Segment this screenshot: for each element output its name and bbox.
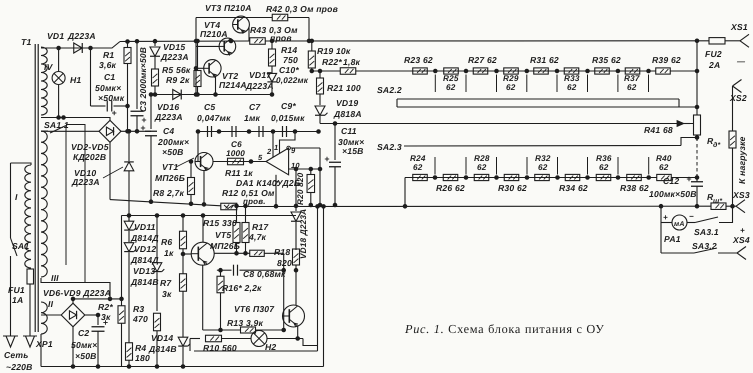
svg-text:R29: R29 bbox=[503, 74, 519, 83]
resistor R11 bbox=[228, 158, 244, 165]
resistor Rsh shunt bbox=[711, 203, 726, 210]
svg-text:0,022мк: 0,022мк bbox=[276, 76, 309, 85]
resistor R43 in rail bbox=[250, 38, 266, 45]
svg-text:R35 62: R35 62 bbox=[592, 55, 621, 65]
resistor R29 bbox=[504, 68, 519, 74]
resistor R38 bbox=[627, 174, 642, 180]
transistor VT3 bbox=[233, 16, 250, 33]
op-amp DA1 К140УД2Б bbox=[266, 148, 289, 175]
svg-text:VD19: VD19 bbox=[336, 98, 358, 108]
lamp H1 bbox=[57, 46, 61, 50]
wire bridge negative bbox=[109, 142, 111, 199]
wire R41 wiper line bbox=[320, 123, 684, 125]
resistor R30 bbox=[504, 174, 519, 180]
svg-text:R27 62: R27 62 bbox=[468, 55, 497, 65]
svg-text:0,015мк: 0,015мк bbox=[271, 113, 305, 123]
resistor R13 bbox=[241, 327, 256, 333]
svg-text:R37: R37 bbox=[624, 74, 640, 83]
wire VT5 collector bbox=[202, 216, 204, 243]
svg-text:II: II bbox=[48, 299, 54, 309]
wire lower return A bbox=[303, 339, 318, 346]
svg-text:VT1: VT1 bbox=[162, 162, 178, 172]
svg-text:62: 62 bbox=[506, 83, 516, 92]
capacitor C5 bbox=[207, 126, 209, 137]
resistor R24 bbox=[413, 174, 428, 180]
diode VD1 bbox=[74, 43, 83, 53]
svg-text:×50мк: ×50мк bbox=[98, 93, 125, 103]
fuse FU1 bbox=[29, 268, 31, 269]
svg-text:SA2.3: SA2.3 bbox=[377, 142, 402, 152]
resistor R40 bbox=[657, 174, 672, 180]
svg-text:R11 1к: R11 1к bbox=[225, 168, 253, 178]
svg-text:R24: R24 bbox=[410, 154, 426, 163]
transistor VT4 bbox=[219, 38, 236, 55]
svg-text:R39 62: R39 62 bbox=[652, 55, 681, 65]
svg-text:VD2-VD5: VD2-VD5 bbox=[71, 142, 109, 152]
resistor R18 bbox=[293, 249, 300, 265]
svg-text:д*: д* bbox=[713, 141, 721, 149]
svg-text:С4: С4 bbox=[163, 126, 174, 136]
wire ladder row2 bbox=[405, 177, 657, 179]
svg-text:FU1: FU1 bbox=[8, 285, 25, 295]
wire SA1.1 tap lines bbox=[65, 126, 67, 266]
svg-text:R5 56к: R5 56к bbox=[162, 65, 191, 75]
svg-text:XS2: XS2 bbox=[729, 93, 747, 103]
svg-text:R14: R14 bbox=[281, 45, 297, 55]
svg-text:1к: 1к bbox=[164, 248, 174, 258]
svg-text:R15 330: R15 330 bbox=[203, 218, 237, 228]
transformer winding IV bbox=[41, 47, 47, 115]
svg-text:R20 820: R20 820 bbox=[296, 172, 305, 205]
resistor R6 bbox=[182, 216, 184, 232]
svg-text:Т1: Т1 bbox=[21, 37, 31, 47]
wire emitter bus bbox=[152, 94, 273, 96]
svg-text:VD15: VD15 bbox=[163, 42, 185, 52]
svg-text:R2*: R2* bbox=[98, 302, 113, 312]
capacitor C3 electrolytic bbox=[135, 40, 139, 44]
svg-text:Д223А: Д223А bbox=[154, 112, 183, 122]
svg-text:R8 2,7к: R8 2,7к bbox=[153, 188, 185, 198]
wire VT1 base bbox=[197, 132, 199, 162]
svg-text:XS1: XS1 bbox=[730, 22, 748, 32]
svg-text:Н1: Н1 bbox=[70, 75, 81, 85]
svg-text:IV: IV bbox=[44, 62, 54, 72]
wire VT5 emitter bbox=[202, 265, 204, 330]
capacitor C4 electrolytic bbox=[149, 93, 153, 97]
svg-text:9: 9 bbox=[291, 146, 296, 155]
wire SA1.1 to bridge bbox=[41, 118, 110, 121]
bottom return rail bbox=[41, 366, 324, 368]
svg-text:×15В: ×15В bbox=[342, 146, 364, 156]
fuse FU2 bbox=[709, 38, 725, 44]
svg-text:Д223А: Д223А bbox=[245, 81, 274, 91]
svg-text:DA1 К140УД2Б: DA1 К140УД2Б bbox=[236, 178, 300, 188]
svg-text:62: 62 bbox=[477, 163, 487, 172]
zener VD11 bbox=[128, 216, 130, 222]
wire bridge2 bottom bbox=[40, 334, 42, 367]
resistor R16 bbox=[220, 270, 222, 276]
wire lower return B bbox=[194, 350, 318, 352]
wire winding II to bridge bbox=[41, 314, 61, 316]
svg-text:R25: R25 bbox=[443, 74, 459, 83]
resistor R25 bbox=[444, 68, 459, 74]
svg-text:I: I bbox=[15, 192, 18, 202]
svg-text:R36: R36 bbox=[596, 154, 612, 163]
svg-text:SA3.1: SA3.1 bbox=[694, 227, 719, 237]
svg-text:С3 2000мк×50В: С3 2000мк×50В bbox=[138, 47, 148, 112]
lamp H2 bbox=[251, 331, 267, 347]
svg-text:П214А: П214А bbox=[219, 80, 247, 90]
svg-text:~220В: ~220В bbox=[6, 362, 33, 372]
wire output column bbox=[696, 41, 698, 115]
svg-text:VD11: VD11 bbox=[134, 222, 156, 232]
svg-text:R16* 2,2к: R16* 2,2к bbox=[222, 283, 262, 293]
capacitor C7b bbox=[258, 126, 260, 137]
svg-text:Д223А: Д223А bbox=[71, 177, 100, 187]
resistor R22 bbox=[340, 68, 356, 75]
zener VD13 bbox=[156, 216, 158, 263]
wire R42 top bbox=[196, 17, 273, 19]
resistor R39 bbox=[656, 68, 671, 74]
svg-text:2: 2 bbox=[266, 147, 272, 156]
zener VD18 bbox=[295, 169, 297, 211]
resistor R1 bbox=[126, 40, 130, 44]
svg-text:VD6-VD9 Д223А: VD6-VD9 Д223А bbox=[43, 288, 111, 298]
switch SA3.2 bbox=[660, 223, 662, 254]
svg-text:R33: R33 bbox=[564, 74, 580, 83]
svg-text:ш*: ш* bbox=[713, 198, 722, 205]
transistor VT6 bbox=[283, 305, 305, 327]
svg-text:62: 62 bbox=[627, 83, 637, 92]
svg-text:VT5: VT5 bbox=[215, 230, 231, 240]
svg-text:VD18 Д223А: VD18 Д223А bbox=[299, 209, 308, 259]
svg-text:С9*: С9* bbox=[281, 101, 296, 111]
svg-text:820: 820 bbox=[277, 258, 292, 268]
connector XS3 bbox=[726, 205, 736, 207]
wire winding III to bridge bbox=[41, 130, 99, 132]
svg-text:1000: 1000 bbox=[226, 149, 245, 158]
resistor R34 bbox=[565, 174, 580, 180]
resistor R17b bbox=[214, 252, 249, 254]
resistor R42 bbox=[272, 14, 288, 21]
wire top secondary bbox=[41, 42, 120, 49]
svg-text:750: 750 bbox=[283, 55, 298, 65]
capacitor C12 electrolytic bbox=[691, 181, 703, 183]
svg-text:R34 62: R34 62 bbox=[559, 183, 588, 193]
resistor R20 bbox=[310, 169, 312, 175]
capacitor C7a bbox=[231, 126, 233, 137]
svg-text:+: + bbox=[663, 213, 668, 222]
svg-text:Д814В: Д814В bbox=[130, 277, 159, 287]
svg-text:−: − bbox=[689, 212, 694, 221]
svg-text:VT6 П307: VT6 П307 bbox=[234, 304, 275, 314]
svg-text:С7: С7 bbox=[249, 102, 261, 112]
resistor R27 bbox=[473, 68, 488, 74]
svg-text:XP1: XP1 bbox=[35, 339, 53, 349]
svg-text:R1: R1 bbox=[103, 50, 114, 60]
wire ladder row1 bbox=[413, 70, 656, 72]
resistor R21 bbox=[319, 71, 321, 78]
svg-text:R21 100: R21 100 bbox=[327, 83, 361, 93]
wire op-amp pin10 bbox=[289, 168, 320, 170]
svg-text:Д223А: Д223А bbox=[160, 52, 189, 62]
diode VD15 bbox=[153, 39, 157, 43]
resistor R31 bbox=[534, 68, 549, 74]
svg-text:0,047мк: 0,047мк bbox=[197, 113, 231, 123]
svg-text:62: 62 bbox=[659, 163, 669, 172]
wire VT6 emitter bbox=[297, 326, 299, 339]
row2 tap contacts bbox=[434, 157, 436, 175]
zener VD14 bbox=[178, 337, 188, 346]
svg-text:VD12: VD12 bbox=[134, 244, 156, 254]
diode VD16 bbox=[173, 90, 182, 100]
resistor R5 bbox=[152, 69, 159, 86]
svg-text:Д223А: Д223А bbox=[67, 31, 96, 41]
transformer T1 core bbox=[34, 44, 36, 332]
wire op-amp pin2 bbox=[272, 132, 274, 158]
svg-text:R32: R32 bbox=[535, 154, 551, 163]
svg-text:R38 62: R38 62 bbox=[620, 183, 649, 193]
svg-text:VD16: VD16 bbox=[157, 102, 179, 112]
wire row1 to output bbox=[671, 70, 698, 72]
svg-text:R43: R43 bbox=[250, 25, 266, 35]
transformer winding II bbox=[41, 302, 47, 334]
svg-text:С5: С5 bbox=[204, 102, 215, 112]
svg-text:R40: R40 bbox=[656, 154, 672, 163]
svg-text:VD1: VD1 bbox=[47, 31, 64, 41]
svg-text:Д814В: Д814В bbox=[148, 344, 177, 354]
svg-text:3к: 3к bbox=[101, 312, 111, 322]
svg-text:VD14: VD14 bbox=[151, 333, 173, 343]
svg-text:R41 68: R41 68 bbox=[644, 125, 673, 135]
connector XS4 bbox=[737, 247, 746, 254]
svg-text:С12: С12 bbox=[663, 176, 679, 186]
svg-text:R28: R28 bbox=[474, 154, 490, 163]
svg-text:МП26Б: МП26Б bbox=[155, 173, 185, 183]
svg-text:200мк×: 200мк× bbox=[157, 137, 189, 147]
svg-text:FU2: FU2 bbox=[705, 49, 722, 59]
svg-text:КД202В: КД202В bbox=[73, 152, 106, 162]
zener VD12 bbox=[128, 231, 130, 242]
svg-text:R9 2к: R9 2к bbox=[166, 75, 190, 85]
svg-text:К нагрузке: К нагрузке bbox=[737, 136, 747, 184]
connector XS1 bbox=[740, 34, 749, 41]
wire row1 feed bbox=[312, 70, 340, 72]
wire bridge positive bbox=[121, 130, 151, 132]
wire negative bus R12 bbox=[110, 200, 221, 206]
row1 tap contacts bbox=[434, 75, 436, 93]
wire winding III bottom bbox=[41, 278, 110, 299]
svg-text:Д818А: Д818А bbox=[333, 109, 362, 119]
svg-text:SA1.1: SA1.1 bbox=[44, 120, 69, 130]
svg-text:50мк×: 50мк× bbox=[95, 83, 121, 93]
svg-text:С2: С2 bbox=[78, 328, 89, 338]
capacitor C11 electrolytic bbox=[334, 124, 336, 161]
wire op-amp pin1 bbox=[280, 132, 296, 154]
resistor R28 bbox=[474, 174, 489, 180]
svg-text:R18: R18 bbox=[274, 247, 290, 257]
svg-text:100мк×50В: 100мк×50В bbox=[649, 189, 697, 199]
svg-text:62: 62 bbox=[538, 163, 548, 172]
wire op-amp pin9 bbox=[287, 146, 291, 150]
svg-text:1А: 1А bbox=[12, 295, 23, 305]
resistor R14 bbox=[270, 39, 274, 43]
transistor VT5 bbox=[191, 242, 214, 265]
svg-text:R42 0,3 Ом пров: R42 0,3 Ом пров bbox=[266, 4, 338, 14]
svg-text:С8 0,68мк: С8 0,68мк bbox=[243, 269, 286, 279]
svg-text:С6: С6 bbox=[231, 140, 242, 149]
svg-text:R3: R3 bbox=[133, 304, 144, 314]
wire VT1 emitter bbox=[203, 171, 205, 205]
svg-text:мА: мА bbox=[674, 221, 685, 228]
wire VT1 collector to op-amp bbox=[213, 161, 266, 163]
resistor R32 bbox=[535, 174, 550, 180]
resistor R7 bbox=[180, 274, 187, 292]
svg-text:С11: С11 bbox=[341, 126, 357, 136]
svg-text:470: 470 bbox=[132, 314, 148, 324]
resistor R36 bbox=[596, 174, 611, 180]
svg-text:П210А: П210А bbox=[200, 29, 228, 39]
svg-text:+: + bbox=[740, 226, 745, 235]
wire bridge2 plus bbox=[85, 314, 98, 316]
transistor VT2 bbox=[204, 60, 221, 77]
resistor R37 bbox=[625, 68, 640, 74]
resistor R8 bbox=[190, 162, 192, 178]
zener VD19 bbox=[315, 106, 325, 115]
svg-text:Сеть: Сеть bbox=[4, 350, 29, 360]
svg-text:1,8к: 1,8к bbox=[343, 57, 361, 67]
svg-text:2А: 2А bbox=[708, 60, 720, 70]
svg-text:3к: 3к bbox=[162, 289, 172, 299]
svg-text:R17: R17 bbox=[252, 222, 269, 232]
resistor R33 bbox=[564, 68, 579, 74]
svg-text:Рис. 1. Схема блока питания с: Рис. 1. Схема блока питания с ОУ bbox=[404, 322, 605, 336]
svg-text:XS4: XS4 bbox=[732, 235, 750, 245]
diode VD10 bbox=[127, 130, 131, 134]
resistor R12 wire shunt bbox=[221, 203, 237, 210]
resistor R15 bbox=[236, 206, 238, 222]
transformer winding I primary bbox=[25, 165, 31, 268]
svg-text:С1: С1 bbox=[104, 72, 115, 82]
wire R13 row bbox=[203, 329, 240, 331]
svg-text:XS3: XS3 bbox=[732, 190, 750, 200]
svg-text:62: 62 bbox=[446, 83, 456, 92]
resistor R10 bbox=[206, 335, 222, 342]
plug XP1 bbox=[6, 336, 15, 347]
potentiometer R41 bbox=[694, 115, 701, 135]
capacitor C1 bbox=[89, 46, 93, 50]
wire row2 to C12 bbox=[671, 177, 697, 179]
svg-text:Д814Д: Д814Д bbox=[130, 233, 159, 243]
main positive rail bbox=[120, 40, 250, 43]
svg-text:Д814Д: Д814Д bbox=[130, 255, 159, 265]
svg-text:R19 10к: R19 10к bbox=[317, 46, 351, 56]
svg-text:62: 62 bbox=[599, 163, 609, 172]
svg-text:РА1: РА1 bbox=[664, 234, 681, 244]
svg-text:R6: R6 bbox=[161, 237, 172, 247]
bridge rectifier VD2-VD5 bbox=[99, 120, 121, 142]
svg-text:III: III bbox=[51, 273, 59, 283]
svg-text:180: 180 bbox=[135, 353, 150, 363]
wire inverting feedback bbox=[319, 148, 321, 205]
svg-text:R7: R7 bbox=[160, 278, 172, 288]
svg-text:4,7к: 4,7к bbox=[248, 232, 267, 242]
svg-text:×50В: ×50В bbox=[162, 147, 184, 157]
svg-text:—: — bbox=[736, 57, 746, 66]
svg-text:R13 3,9к: R13 3,9к bbox=[227, 318, 263, 328]
resistor R4 bbox=[128, 342, 130, 343]
wire bridge2 top node bbox=[73, 298, 122, 300]
svg-text:R26 62: R26 62 bbox=[436, 183, 465, 193]
svg-text:1: 1 bbox=[274, 143, 278, 152]
wire VT5 base bbox=[183, 253, 191, 255]
wire oscillator coupling row bbox=[198, 131, 320, 133]
resistor R17 bbox=[245, 206, 247, 222]
connector XS2 bbox=[733, 80, 742, 87]
wire driver base bus bbox=[195, 18, 197, 95]
svg-text:3,6к: 3,6к bbox=[99, 60, 117, 70]
wire mains left pole bbox=[10, 163, 12, 238]
svg-text:SA2.2: SA2.2 bbox=[377, 85, 402, 95]
svg-text:С10*: С10* bbox=[279, 65, 299, 75]
svg-text:SA3.2: SA3.2 bbox=[692, 241, 717, 251]
svg-text:×50В: ×50В bbox=[75, 351, 97, 361]
wire op-amp pin7 bbox=[275, 175, 277, 206]
resistor R26 bbox=[443, 174, 458, 180]
svg-text:R4: R4 bbox=[135, 343, 146, 353]
svg-text:5: 5 bbox=[258, 153, 263, 162]
svg-text:R30 62: R30 62 bbox=[498, 183, 527, 193]
transistor VT1 bbox=[195, 153, 213, 171]
resistor R2 bbox=[121, 216, 123, 306]
svg-text:VD17: VD17 bbox=[249, 70, 272, 80]
svg-text:62: 62 bbox=[413, 163, 423, 172]
resistor R35 bbox=[595, 68, 610, 74]
capacitor C8 bbox=[217, 269, 232, 271]
meter PA1 bbox=[660, 206, 662, 222]
bridge rectifier VD6-VD9 bbox=[61, 303, 85, 327]
diode VD17 bbox=[267, 73, 276, 82]
svg-text:R23 62: R23 62 bbox=[404, 55, 433, 65]
svg-text:62: 62 bbox=[567, 83, 577, 92]
switch SA1 bbox=[11, 238, 18, 256]
resistor R23 bbox=[413, 68, 428, 74]
svg-text:VD13: VD13 bbox=[133, 266, 155, 276]
switch SA1.1 bbox=[41, 130, 48, 132]
svg-text:1мк: 1мк bbox=[244, 113, 261, 123]
capacitor C2 electrolytic bbox=[97, 315, 99, 325]
resistor R9 bbox=[196, 39, 200, 43]
wire lamp row bbox=[190, 338, 200, 340]
svg-text:R22*: R22* bbox=[322, 57, 342, 67]
resistor R3 bbox=[154, 313, 161, 331]
switch SA3.1 bbox=[695, 217, 718, 223]
svg-text:R31 62: R31 62 bbox=[530, 55, 559, 65]
svg-text:50мк×: 50мк× bbox=[71, 340, 97, 350]
wire zener bus bbox=[121, 215, 296, 217]
resistor Rd bbox=[732, 86, 734, 131]
resistor R19 bbox=[311, 41, 313, 51]
wire mains right pole bbox=[11, 163, 32, 165]
capacitor C9 bbox=[282, 126, 284, 137]
svg-text:VT3 П210А: VT3 П210А bbox=[205, 3, 252, 13]
transformer winding III bbox=[41, 131, 47, 277]
